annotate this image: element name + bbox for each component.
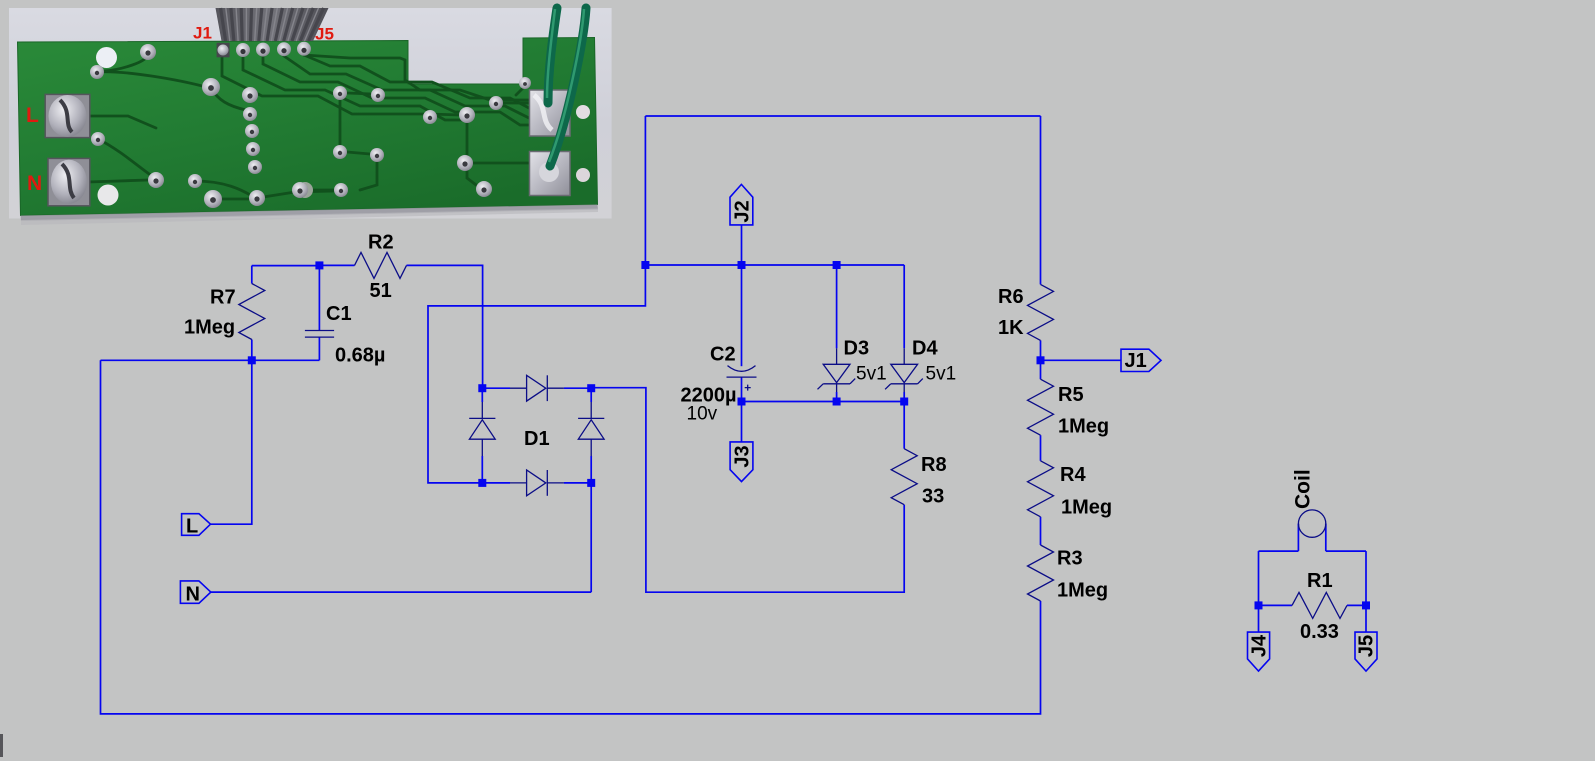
green wire 1 <box>548 8 557 103</box>
wire coil left shoulder <box>1259 550 1299 552</box>
edge mark <box>0 734 3 757</box>
zener diode D3 <box>836 348 838 364</box>
diode D1 bottom <box>510 482 527 484</box>
wire bridge left col top <box>481 388 483 402</box>
wire R4-R3 link <box>1040 517 1042 545</box>
wire N line <box>211 591 591 593</box>
wire bottom rail <box>101 360 1041 714</box>
svg-text:R2: R2 <box>368 232 394 254</box>
svg-text:J2: J2 <box>732 200 754 222</box>
wire R7 top lead <box>251 266 253 284</box>
flag L <box>182 514 211 536</box>
node junction <box>1362 601 1370 609</box>
wire R1 left lead <box>1259 604 1293 606</box>
wire positive row <box>742 401 905 403</box>
wire neg rail row <box>645 264 904 266</box>
tinned pad lower <box>530 152 571 196</box>
node junction <box>1255 601 1263 609</box>
wire D3 bottom stub <box>836 392 838 402</box>
wire R6-R5 link <box>1040 340 1042 379</box>
node junction <box>738 261 746 269</box>
solder pads <box>140 44 156 60</box>
svg-text:C1: C1 <box>326 303 352 325</box>
resistor R8 <box>891 449 917 505</box>
svg-text:5v1: 5v1 <box>856 364 887 385</box>
svg-text:J5: J5 <box>1356 635 1378 657</box>
wire R6 top lead <box>1040 116 1042 284</box>
svg-text:C2: C2 <box>710 344 736 366</box>
svg-text:D3: D3 <box>844 338 870 360</box>
node junction <box>587 479 595 487</box>
flag J3 <box>730 442 753 482</box>
wire neg rail vertical <box>644 116 646 265</box>
wire L line <box>211 360 252 524</box>
svg-text:J1: J1 <box>193 24 212 43</box>
diode D1 left <box>481 402 483 418</box>
svg-text:1Meg: 1Meg <box>1057 580 1108 602</box>
wire coil left lead <box>1297 524 1299 552</box>
flag N <box>180 581 210 603</box>
node junction <box>900 398 908 406</box>
tinned pad upper <box>530 90 571 136</box>
wire bridge right col top <box>590 388 592 402</box>
wire coil right lead <box>1325 524 1327 552</box>
svg-text:R1: R1 <box>1307 570 1333 592</box>
diode D1 right <box>590 402 592 418</box>
svg-text:Coil: Coil <box>1292 469 1315 509</box>
svg-text:1K: 1K <box>998 317 1024 339</box>
wire bridge TR lead <box>564 387 591 389</box>
resistor R2 <box>355 252 407 278</box>
svg-text:D4: D4 <box>912 338 938 360</box>
wire J2 stem <box>741 225 743 265</box>
svg-text:D1: D1 <box>524 428 550 450</box>
svg-text:33: 33 <box>922 486 944 508</box>
svg-text:R6: R6 <box>998 286 1024 308</box>
node junction <box>1037 356 1045 364</box>
svg-text:L: L <box>26 104 39 127</box>
svg-text:N: N <box>186 583 200 605</box>
wire D3 top lead <box>836 265 838 348</box>
screw terminal L <box>45 94 90 137</box>
wire J3 stem <box>741 402 743 442</box>
wire bridge left col bottom <box>481 456 483 483</box>
resistor R6 <box>1028 284 1054 340</box>
wire C2 bottom lead <box>741 377 743 401</box>
flag J4 <box>1248 632 1270 671</box>
screw terminal N <box>48 158 90 205</box>
resistor R5 <box>1028 379 1054 435</box>
svg-text:N: N <box>27 172 42 195</box>
wire R7 to node <box>252 265 320 267</box>
svg-text:R7: R7 <box>210 287 236 309</box>
wire C1 top lead <box>318 265 320 330</box>
svg-text:J5: J5 <box>315 25 334 44</box>
svg-text:0.68µ: 0.68µ <box>335 345 385 367</box>
mounting holes <box>96 47 117 68</box>
node junction <box>641 261 649 269</box>
resistor R4 <box>1028 461 1054 517</box>
wire R1 right lead <box>1347 604 1366 606</box>
wire R2 left lead <box>319 264 354 266</box>
svg-text:J1: J1 <box>1125 350 1147 372</box>
node junction <box>315 261 323 269</box>
wire J4 stem <box>1258 605 1260 632</box>
resistor R3 <box>1028 545 1054 601</box>
svg-text:1Meg: 1Meg <box>1058 416 1109 438</box>
PCB board <box>18 38 598 216</box>
node junction <box>738 398 746 406</box>
pcb traces <box>97 72 206 87</box>
wire bridge right col bottom <box>590 456 592 483</box>
flag J1 <box>1121 349 1161 371</box>
node junction <box>478 384 486 392</box>
wire D4 bottom stub <box>903 392 905 402</box>
svg-text:1Meg: 1Meg <box>184 317 235 339</box>
wire D4 top lead <box>903 265 905 348</box>
board shadow <box>21 205 599 222</box>
wire bridge to N column <box>590 483 592 592</box>
wire R2 right lead down to bridge <box>407 265 483 388</box>
wire bridge TL lead <box>482 387 510 389</box>
wire coil right shoulder <box>1326 550 1366 552</box>
flag J5 <box>1355 632 1377 671</box>
wire DC+ return <box>591 388 904 593</box>
node junction <box>478 479 486 487</box>
PCB photo background <box>9 8 612 219</box>
svg-text:J3: J3 <box>732 445 754 467</box>
wire R1 left drop <box>1258 551 1260 605</box>
capacitor C1 <box>305 330 334 332</box>
wire top rail horizontal <box>645 115 1040 117</box>
svg-text:R8: R8 <box>921 454 947 476</box>
node junction <box>833 398 841 406</box>
wire bridge BL lead <box>482 482 510 484</box>
wire J1 tap <box>1041 359 1122 361</box>
green wire 2 <box>550 8 586 166</box>
svg-text:0.33: 0.33 <box>1300 621 1339 643</box>
wire bridge AC2 loop <box>428 265 645 483</box>
node junction <box>248 356 256 364</box>
resistor R1 <box>1292 592 1347 618</box>
wire C1 bottom lead <box>318 337 320 360</box>
wire J5 stem <box>1365 605 1367 632</box>
coil winding circle <box>1298 510 1325 537</box>
wire R7 bottom lead <box>251 340 253 361</box>
svg-text:10v: 10v <box>687 404 718 425</box>
wire bridge BR lead <box>564 482 591 484</box>
wire R5-R4 link <box>1040 435 1042 461</box>
svg-text:J4: J4 <box>1249 634 1271 657</box>
connector pads J1-J5 <box>217 43 230 58</box>
wire R1 right drop <box>1365 551 1367 605</box>
diode D1 top <box>510 387 527 389</box>
node junction <box>587 384 595 392</box>
svg-text:5v1: 5v1 <box>926 364 957 385</box>
zener diode D4 <box>903 348 905 364</box>
svg-text:1Meg: 1Meg <box>1061 497 1112 519</box>
wire left row <box>101 359 320 361</box>
resistor R7 <box>239 284 265 340</box>
svg-text:R4: R4 <box>1060 464 1086 486</box>
svg-text:51: 51 <box>370 280 392 302</box>
wire R8 top lead <box>903 402 905 449</box>
svg-text:R3: R3 <box>1057 548 1083 570</box>
ribbon cable <box>216 8 329 41</box>
svg-text:L: L <box>186 516 198 538</box>
flag J2 <box>730 184 753 225</box>
wire C2 top lead <box>741 265 743 366</box>
node junction <box>833 261 841 269</box>
capacitor C2 <box>728 366 756 372</box>
svg-text:R5: R5 <box>1058 384 1084 406</box>
